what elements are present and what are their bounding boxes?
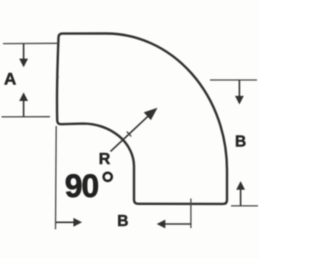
svg-text:90: 90 bbox=[65, 168, 99, 204]
A up arrow bbox=[23, 101, 25, 117]
svg-text:A: A bbox=[4, 70, 16, 89]
degree circle bbox=[104, 173, 112, 181]
B right up arrow bbox=[240, 190, 242, 206]
B right down arrow bbox=[238, 80, 240, 97]
svg-text:B: B bbox=[235, 133, 246, 150]
bottom B left extension line bbox=[55, 126, 58, 229]
small nick on left edge bbox=[56, 77, 59, 78]
dimension A bottom line bbox=[2, 116, 51, 118]
elbow body outline (90-degree elbow) bbox=[57, 34, 227, 204]
A down arrow bbox=[23, 44, 25, 59]
dimension B right top line bbox=[210, 79, 257, 81]
bottom B right-pointing arrow bbox=[56, 221, 74, 223]
svg-text:R: R bbox=[99, 151, 111, 168]
svg-text:B: B bbox=[117, 213, 128, 230]
dimension B right bottom line bbox=[231, 205, 258, 207]
R arrowhead bbox=[144, 108, 158, 120]
R leader line bbox=[111, 114, 151, 151]
dimension A top line bbox=[3, 42, 58, 44]
bottom B left-pointing arrow bbox=[165, 223, 191, 225]
tick on R leader bbox=[127, 132, 131, 137]
bottom B right extension line bbox=[190, 199, 192, 229]
